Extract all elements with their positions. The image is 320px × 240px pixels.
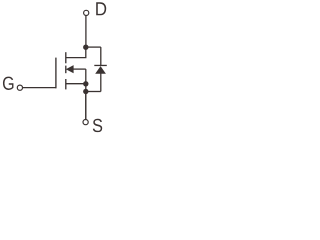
wire source stub from channel	[66, 83, 86, 85]
diode D1 cathode bar	[94, 64, 107, 66]
wire source terminal drop	[85, 92, 87, 120]
wire body stub from arrow to source rail	[74, 68, 86, 70]
label D	[96, 2, 106, 15]
wire diode anode to source junction	[86, 91, 101, 93]
label G	[3, 77, 14, 90]
transistor Q1 channel source segment	[65, 79, 67, 89]
transistor Q1 body arrow	[66, 65, 74, 73]
terminal G circle	[17, 85, 22, 90]
label S	[93, 119, 102, 132]
wire drain junction to diode cathode	[86, 46, 101, 48]
wire diode anode drop	[100, 74, 102, 92]
transistor Q1 gate bar	[55, 58, 57, 89]
node source-stub junction dot	[83, 81, 88, 86]
terminal S circle	[83, 120, 88, 125]
diode D1 anode triangle	[95, 66, 106, 74]
wire diode cathode drop	[100, 47, 102, 65]
wire gate lead	[23, 87, 57, 89]
node drain junction dot	[83, 45, 88, 50]
terminal D circle	[84, 10, 89, 15]
transistor Q1 channel body segment	[65, 66, 67, 74]
wire drain branch to channel	[66, 47, 86, 57]
transistor Q1 channel drain segment	[65, 52, 67, 63]
wire source rail	[85, 69, 87, 119]
node source-diode junction dot	[83, 89, 88, 94]
wire D terminal to drain junction	[85, 16, 87, 47]
